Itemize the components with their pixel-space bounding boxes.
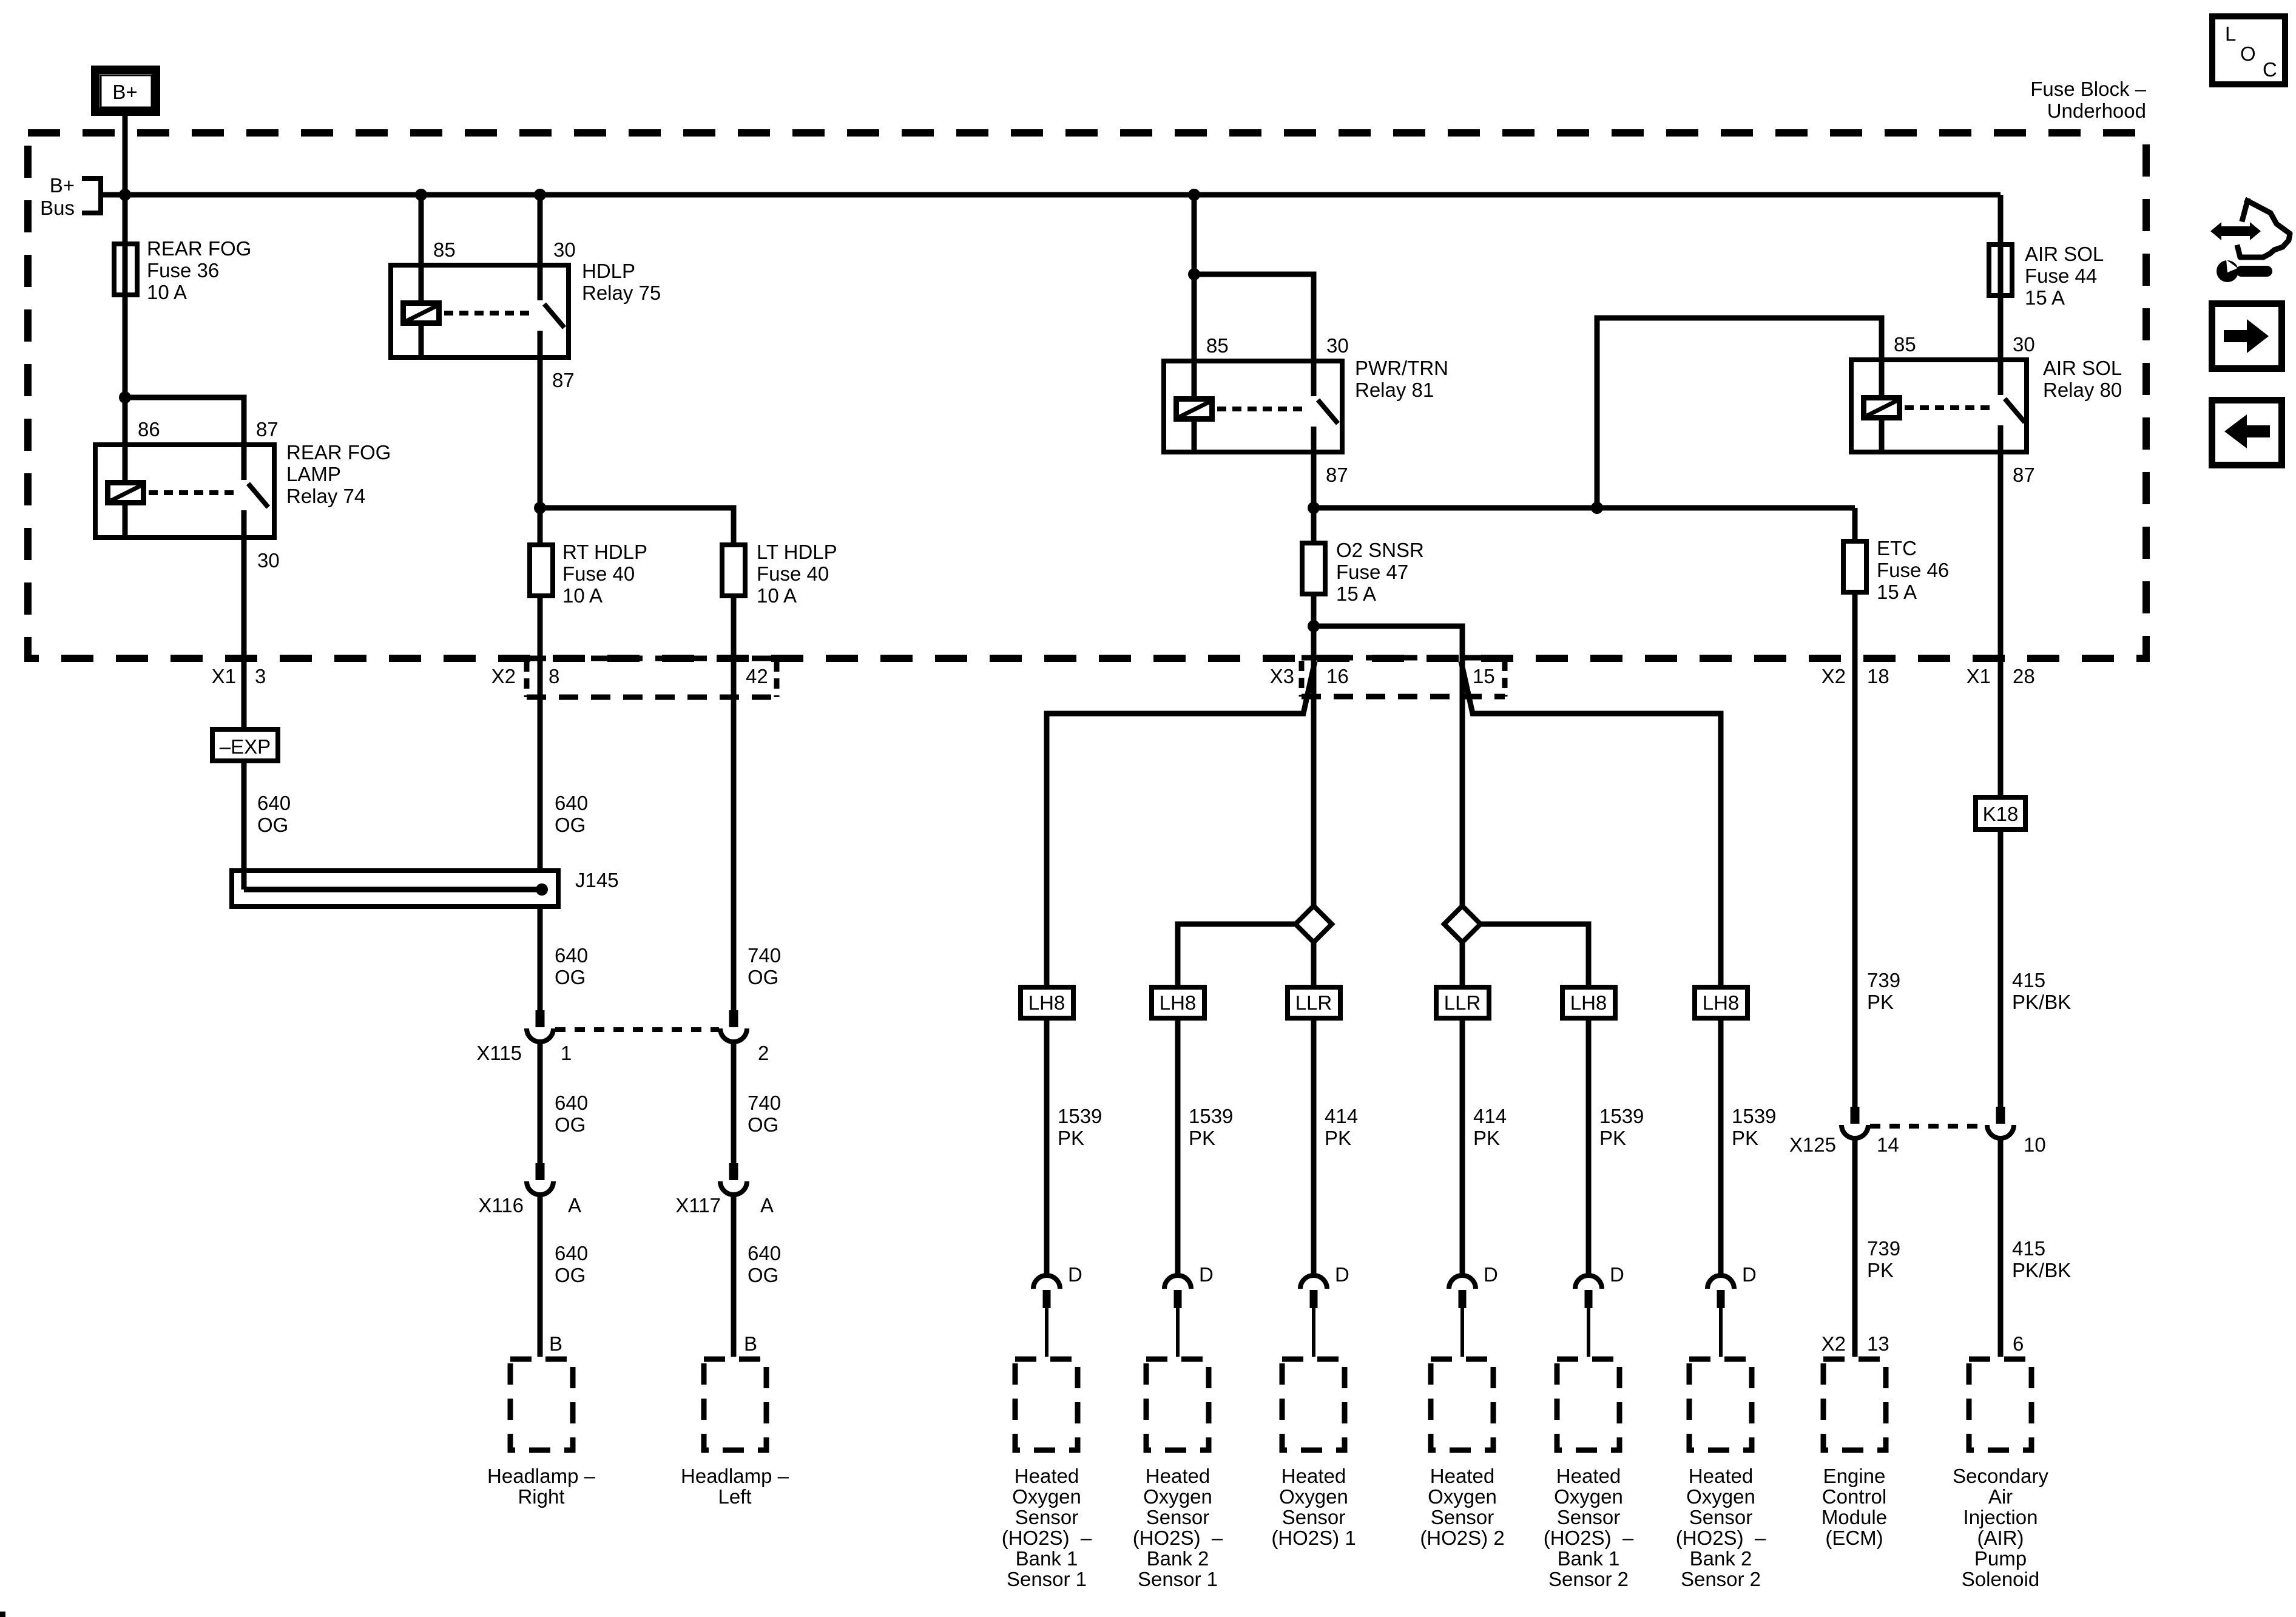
connector X1 pin 28 labels bbox=[1967, 665, 2035, 687]
wire: diamond S1 down to LLR (HO2S 1) bbox=[1311, 942, 1317, 985]
connector X3 dashed outline bbox=[1302, 658, 1505, 697]
relay K74 coil-to-switch dashed link bbox=[149, 490, 238, 495]
svg-text:86: 86 bbox=[138, 418, 160, 441]
svg-text:Fuse 40: Fuse 40 bbox=[562, 562, 635, 585]
wire: branch to right (to ETC fuse and AIR SOL coil riser) bbox=[1314, 505, 1855, 511]
svg-text:Oxygen: Oxygen bbox=[1554, 1485, 1623, 1508]
icon: forward arrow box bbox=[2212, 304, 2282, 369]
svg-text:X1: X1 bbox=[212, 665, 236, 687]
svg-text:(HO2S) 2: (HO2S) 2 bbox=[1420, 1527, 1504, 1549]
svg-text:D: D bbox=[1484, 1263, 1498, 1286]
svg-text:Sensor 2: Sensor 2 bbox=[1681, 1568, 1761, 1590]
svg-text:OG: OG bbox=[748, 966, 778, 988]
svg-text:PK: PK bbox=[1867, 1259, 1894, 1281]
svg-text:1539: 1539 bbox=[1732, 1105, 1776, 1127]
svg-text:1539: 1539 bbox=[1599, 1105, 1644, 1127]
svg-text:30: 30 bbox=[257, 549, 280, 572]
component: Headlamp Left dashed box bbox=[704, 1359, 766, 1450]
svg-text:D: D bbox=[1068, 1263, 1082, 1286]
svg-text:Bank 1: Bank 1 bbox=[1016, 1547, 1078, 1570]
label: circuit 640 OG (above X115) bbox=[555, 944, 588, 988]
wire: branch over to X3-15 bbox=[1314, 626, 1462, 906]
svg-text:B+: B+ bbox=[112, 81, 137, 103]
wire: diamond S2 branch to column 5 bbox=[1481, 924, 1589, 985]
wire: col6 down to sensor bbox=[1718, 1021, 1724, 1277]
svg-text:X117: X117 bbox=[675, 1194, 721, 1217]
svg-text:PK/BK: PK/BK bbox=[2012, 1259, 2071, 1281]
svg-text:13: 13 bbox=[1867, 1332, 1889, 1355]
svg-text:87: 87 bbox=[256, 418, 279, 441]
svg-text:640: 640 bbox=[555, 792, 588, 814]
svg-text:Oxygen: Oxygen bbox=[1686, 1485, 1755, 1508]
wire: X117 to headlamp left bbox=[731, 1194, 737, 1357]
node: bus junction at B+ drop bbox=[119, 189, 131, 201]
fuse F40 LT HDLP bbox=[722, 545, 745, 596]
connector X115 dashed tie bbox=[555, 1027, 719, 1032]
svg-text:L: L bbox=[2225, 22, 2236, 45]
relay K81 switch bbox=[1314, 359, 1338, 454]
svg-text:Heated: Heated bbox=[1556, 1465, 1621, 1487]
inline connector LH8 (col 6) bbox=[1695, 987, 1747, 1018]
svg-text:X1: X1 bbox=[1967, 665, 1991, 687]
connector X125 dashed tie bbox=[1870, 1124, 1985, 1129]
svg-text:–EXP: –EXP bbox=[220, 735, 271, 758]
svg-text:B: B bbox=[744, 1332, 757, 1355]
svg-text:740: 740 bbox=[748, 1092, 781, 1114]
wire: ETC fuse drop from branch bbox=[1852, 508, 1858, 541]
svg-text:Sensor: Sensor bbox=[1557, 1506, 1621, 1528]
svg-text:LH8: LH8 bbox=[1570, 991, 1607, 1014]
wire: X3-15 splice-out slant to right bank feed bbox=[1461, 661, 1721, 985]
wire: X125-14 down to ECM bbox=[1852, 1138, 1858, 1357]
svg-text:LH8: LH8 bbox=[1160, 991, 1197, 1014]
label: relay 75 bbox=[582, 260, 661, 304]
inline connector LLR (col 4) bbox=[1436, 987, 1489, 1018]
svg-text:PK: PK bbox=[1325, 1127, 1351, 1149]
label: relay 74 bbox=[286, 441, 391, 507]
fuse F44 AIR SOL bbox=[1989, 245, 2012, 295]
label: LT fuse 40 bbox=[757, 541, 837, 607]
svg-text:Sensor: Sensor bbox=[1146, 1506, 1210, 1528]
label: Fuse Block - Underhood bbox=[2030, 78, 2146, 122]
svg-text:15 A: 15 A bbox=[1336, 582, 1376, 605]
label: Secondary Air Injection Pump Solenoid bbox=[1953, 1465, 2048, 1590]
svg-text:LH8: LH8 bbox=[1028, 991, 1065, 1014]
wire: RT fuse down through X2-8 to J145 bbox=[538, 596, 543, 868]
wire: riser from junction to AIR SOL relay pin 85 bbox=[1597, 318, 1882, 508]
svg-text:640: 640 bbox=[555, 1092, 588, 1114]
component: ECM dashed box bbox=[1823, 1359, 1886, 1450]
connector X116 labels bbox=[478, 1194, 581, 1217]
label: circuit 1539 PK (col 5) bbox=[1599, 1105, 1644, 1149]
svg-text:PK: PK bbox=[1473, 1127, 1500, 1149]
svg-text:Fuse 36: Fuse 36 bbox=[147, 259, 219, 282]
component: HO2S 2 dashed box bbox=[1431, 1359, 1493, 1450]
wire: diamond S1 branch to column 2 bbox=[1178, 924, 1295, 985]
label: circuit 640 OG (below EXP) bbox=[257, 792, 291, 836]
label: circuit 739 PK (below X125) bbox=[1867, 1237, 1900, 1281]
svg-text:(HO2S) –: (HO2S) – bbox=[1002, 1527, 1092, 1549]
svg-text:REAR FOG: REAR FOG bbox=[286, 441, 391, 464]
splice diamond S2 bbox=[1444, 906, 1481, 942]
svg-text:Sensor: Sensor bbox=[1015, 1506, 1079, 1528]
svg-text:Sensor 1: Sensor 1 bbox=[1138, 1568, 1218, 1590]
svg-text:Fuse 44: Fuse 44 bbox=[2025, 265, 2097, 287]
svg-text:X3: X3 bbox=[1270, 665, 1294, 687]
relay K80 coil bbox=[1864, 357, 1900, 454]
svg-text:Heated: Heated bbox=[1689, 1465, 1753, 1487]
svg-text:85: 85 bbox=[433, 238, 456, 261]
svg-text:640: 640 bbox=[555, 944, 588, 967]
fuse F46 ETC bbox=[1843, 541, 1866, 592]
svg-text:10 A: 10 A bbox=[562, 584, 603, 607]
svg-text:PK: PK bbox=[1732, 1127, 1758, 1149]
svg-text:X125: X125 bbox=[1789, 1133, 1836, 1156]
node: junction to relay 74 bbox=[119, 391, 131, 403]
label: HO2S Bank1 Sensor2 bbox=[1544, 1465, 1634, 1590]
svg-text:739: 739 bbox=[1867, 1237, 1900, 1260]
svg-text:AIR SOL: AIR SOL bbox=[2025, 243, 2104, 265]
connector X115 labels bbox=[476, 1042, 769, 1064]
svg-text:15: 15 bbox=[1473, 665, 1495, 687]
svg-text:414: 414 bbox=[1325, 1105, 1358, 1127]
svg-text:Solenoid: Solenoid bbox=[1962, 1568, 2039, 1590]
relay K80 coil-to-switch dashed link bbox=[1905, 405, 1993, 410]
wire: col5 down to sensor bbox=[1586, 1021, 1592, 1277]
svg-text:HDLP: HDLP bbox=[582, 260, 635, 282]
svg-text:PWR/TRN: PWR/TRN bbox=[1355, 357, 1448, 379]
label: Engine Control Module bbox=[1822, 1465, 1887, 1549]
svg-text:PK: PK bbox=[1058, 1127, 1084, 1149]
label: circuit 1539 PK (col 6) bbox=[1732, 1105, 1776, 1149]
connector terminal D (col 2) bbox=[1164, 1263, 1214, 1357]
connector terminal D (col 4) bbox=[1449, 1263, 1498, 1357]
label: circuit 415 PK/BK (above X125) bbox=[2012, 969, 2071, 1013]
connector terminal D (col 1) bbox=[1033, 1263, 1082, 1357]
inline connector LLR (col 3) bbox=[1288, 987, 1340, 1018]
wire: X116 to headlamp right bbox=[538, 1194, 543, 1357]
connector X2 dashed outline bbox=[527, 658, 777, 697]
svg-text:X2: X2 bbox=[1822, 1332, 1846, 1355]
svg-text:O2 SNSR: O2 SNSR bbox=[1336, 539, 1424, 561]
connector X125 pin 14 terminal bbox=[1842, 1107, 1868, 1138]
svg-text:10 A: 10 A bbox=[757, 584, 797, 607]
svg-text:X116: X116 bbox=[478, 1194, 524, 1217]
svg-text:14: 14 bbox=[1877, 1133, 1899, 1156]
connector X125 pin 10 terminal bbox=[1987, 1107, 2014, 1138]
svg-text:OG: OG bbox=[555, 1113, 586, 1136]
svg-text:Air: Air bbox=[1988, 1485, 2013, 1508]
svg-text:LAMP: LAMP bbox=[286, 463, 341, 485]
svg-text:RT HDLP: RT HDLP bbox=[562, 541, 647, 563]
svg-text:Sensor: Sensor bbox=[1689, 1506, 1753, 1528]
splice J145 box bbox=[232, 871, 558, 906]
svg-text:X2: X2 bbox=[1822, 665, 1846, 687]
svg-text:Relay 81: Relay 81 bbox=[1355, 379, 1434, 401]
label: circuit 1539 PK (col 2) bbox=[1189, 1105, 1233, 1149]
svg-text:LH8: LH8 bbox=[1703, 991, 1740, 1014]
wire: link over to LT HDLP fuse bbox=[540, 508, 734, 542]
relay K81 coil-to-switch dashed link bbox=[1217, 407, 1306, 411]
relay K75 HDLP box bbox=[391, 265, 569, 357]
svg-text:OG: OG bbox=[555, 1264, 586, 1286]
svg-text:A: A bbox=[760, 1194, 774, 1217]
label: fuse 47 bbox=[1336, 539, 1424, 605]
wire: B+ bus bbox=[101, 192, 2001, 198]
label: fuse 46 bbox=[1877, 537, 1949, 603]
svg-text:28: 28 bbox=[2013, 665, 2035, 687]
svg-text:Relay 75: Relay 75 bbox=[582, 282, 661, 304]
component: HO2S Bank1 Sensor2 dashed box bbox=[1557, 1359, 1619, 1450]
svg-text:Oxygen: Oxygen bbox=[1012, 1485, 1081, 1508]
connector X2 pin 18 labels bbox=[1822, 665, 1889, 687]
connector X3 labels bbox=[1270, 665, 1495, 687]
svg-text:Relay 80: Relay 80 bbox=[2043, 379, 2122, 401]
svg-text:640: 640 bbox=[257, 792, 291, 814]
label: Headlamp Left bbox=[681, 1465, 789, 1508]
svg-text:OG: OG bbox=[257, 814, 288, 836]
svg-text:Secondary: Secondary bbox=[1953, 1465, 2048, 1487]
inline connector LH8 (col 1) bbox=[1021, 987, 1073, 1018]
svg-text:Headlamp –: Headlamp – bbox=[681, 1465, 789, 1487]
label: fuse 44 bbox=[2025, 243, 2104, 309]
component -EXP box bbox=[212, 729, 278, 761]
component: Headlamp Right dashed box bbox=[510, 1359, 573, 1450]
component: HO2S Bank2 Sensor1 dashed box bbox=[1146, 1359, 1209, 1450]
svg-text:B: B bbox=[549, 1332, 562, 1355]
wire: relay75 pin87 down to headlamp fuse junction bbox=[538, 360, 543, 542]
svg-text:Underhood: Underhood bbox=[2047, 100, 2146, 122]
wire: relay75 pin 30 from bus bbox=[538, 195, 543, 263]
svg-text:C: C bbox=[2263, 58, 2277, 81]
svg-text:Control: Control bbox=[1822, 1485, 1886, 1508]
connector X115 pin 2 terminal bbox=[720, 1010, 747, 1042]
label: circuit 740 OG (above X115-2) bbox=[748, 944, 781, 988]
svg-text:Heated: Heated bbox=[1015, 1465, 1079, 1487]
relay K81 PWR/TRN box bbox=[1164, 361, 1342, 452]
svg-text:D: D bbox=[1610, 1263, 1624, 1286]
wire: col4 down to sensor bbox=[1460, 1021, 1465, 1277]
connector terminal D (col 6) bbox=[1707, 1263, 1757, 1357]
fuse F47 O2 SNSR bbox=[1302, 543, 1325, 594]
wire: relay75 pin 85 from bus bbox=[419, 195, 424, 263]
svg-text:30: 30 bbox=[2013, 333, 2035, 356]
connector X2 pin labels bbox=[491, 665, 768, 687]
svg-text:Fuse 46: Fuse 46 bbox=[1877, 559, 1949, 581]
svg-text:PK: PK bbox=[1867, 991, 1894, 1013]
svg-text:1: 1 bbox=[561, 1042, 572, 1064]
Fuse Block - Underhood dashed boundary bbox=[28, 133, 2146, 658]
wire: X125-10 down to AIR pump solenoid bbox=[1998, 1138, 2004, 1357]
node: bus junction at PWR/TRN drop bbox=[1188, 189, 1200, 201]
svg-text:10: 10 bbox=[2024, 1133, 2046, 1156]
relay K80 AIR SOL box bbox=[1851, 360, 2027, 452]
svg-text:AIR SOL: AIR SOL bbox=[2043, 357, 2122, 379]
label: HO2S 2 bbox=[1420, 1465, 1504, 1549]
svg-text:42: 42 bbox=[746, 665, 768, 687]
svg-text:414: 414 bbox=[1473, 1105, 1507, 1127]
svg-text:D: D bbox=[1335, 1263, 1349, 1286]
label: Headlamp Right bbox=[487, 1465, 596, 1508]
label: RT fuse 40 bbox=[562, 541, 647, 607]
connector X115 pin 1 terminal bbox=[527, 1010, 553, 1042]
wire: X115-2 to X117 bbox=[731, 1041, 737, 1163]
relay K75 coil-to-switch dashed link bbox=[444, 311, 533, 316]
svg-text:A: A bbox=[568, 1194, 581, 1217]
svg-text:LLR: LLR bbox=[1295, 991, 1332, 1014]
svg-text:PK: PK bbox=[1599, 1127, 1626, 1149]
label: relay 81 bbox=[1355, 357, 1448, 401]
svg-text:739: 739 bbox=[1867, 969, 1900, 991]
svg-text:85: 85 bbox=[1206, 334, 1229, 357]
wire: J145 down to X115-1 bbox=[538, 909, 543, 1010]
node: junction to relay81 pin 30 bbox=[1188, 268, 1200, 280]
svg-text:Module: Module bbox=[1822, 1506, 1887, 1528]
svg-text:15 A: 15 A bbox=[2025, 286, 2065, 309]
svg-text:415: 415 bbox=[2012, 1237, 2045, 1260]
svg-text:Headlamp –: Headlamp – bbox=[487, 1465, 596, 1487]
inline connector LH8 (col 2) bbox=[1152, 987, 1204, 1018]
wire: col3 down to sensor bbox=[1311, 1021, 1317, 1277]
B+ Bus label and bracket bbox=[40, 174, 101, 219]
node: junction below fuse 47 bbox=[1308, 620, 1320, 632]
svg-text:Fuse Block –: Fuse Block – bbox=[2030, 78, 2146, 100]
svg-text:D: D bbox=[1199, 1263, 1214, 1286]
svg-text:15 A: 15 A bbox=[1877, 581, 1917, 603]
svg-text:Oxygen: Oxygen bbox=[1143, 1485, 1212, 1508]
label: circuit 740 OG (below X115) bbox=[748, 1092, 781, 1136]
svg-text:K18: K18 bbox=[1983, 803, 2019, 825]
wire: B+ to bus bbox=[123, 116, 128, 195]
svg-text:10 A: 10 A bbox=[147, 281, 187, 303]
svg-text:Sensor 1: Sensor 1 bbox=[1007, 1568, 1087, 1590]
relay K74 REAR FOG LAMP box bbox=[95, 445, 274, 538]
svg-text:J145: J145 bbox=[575, 869, 619, 891]
svg-text:REAR FOG: REAR FOG bbox=[147, 237, 251, 260]
svg-text:85: 85 bbox=[1894, 333, 1916, 356]
wire: junction over to pin 87 bbox=[125, 397, 244, 442]
wire: diamond S2 down to LLR (HO2S 2) bbox=[1460, 942, 1465, 985]
svg-text:(AIR): (AIR) bbox=[1977, 1527, 2024, 1549]
icon: underhood view (car outline, double arrow, wrench) bbox=[2210, 201, 2290, 282]
svg-text:(HO2S) –: (HO2S) – bbox=[1676, 1527, 1766, 1549]
label: circuit 640 OG (below X116) bbox=[555, 1242, 588, 1286]
svg-text:30: 30 bbox=[1326, 334, 1349, 357]
wire: fuse 47 down to X3-16 bbox=[1311, 594, 1317, 906]
node: J145 splice junction bbox=[536, 883, 548, 896]
svg-text:Bank 2: Bank 2 bbox=[1147, 1547, 1209, 1570]
relay K75 coil bbox=[403, 263, 440, 360]
svg-text:87: 87 bbox=[2013, 464, 2035, 486]
component K18 box bbox=[1976, 797, 2025, 829]
svg-text:Heated: Heated bbox=[1146, 1465, 1210, 1487]
node: bus junction at HDLP relay pin 85 bbox=[415, 189, 427, 201]
svg-text:740: 740 bbox=[748, 944, 781, 967]
relay K81 coil bbox=[1177, 359, 1213, 454]
wire: bus to REAR FOG fuse and down to junction bbox=[123, 195, 128, 397]
svg-text:Heated: Heated bbox=[1281, 1465, 1346, 1487]
svg-text:OG: OG bbox=[555, 966, 586, 988]
label: HO2S 1 bbox=[1271, 1465, 1356, 1549]
svg-text:415: 415 bbox=[2012, 969, 2045, 991]
svg-text:B+: B+ bbox=[50, 174, 75, 197]
B+ power symbol bbox=[95, 70, 156, 112]
svg-text:X2: X2 bbox=[491, 665, 516, 687]
svg-text:PK/BK: PK/BK bbox=[2012, 991, 2071, 1013]
label: circuit 739 PK (above X125) bbox=[1867, 969, 1900, 1013]
svg-text:Right: Right bbox=[518, 1485, 564, 1508]
svg-text:1539: 1539 bbox=[1058, 1105, 1102, 1127]
label: HO2S Bank1 Sensor1 bbox=[1002, 1465, 1092, 1590]
fuse F40 RT HDLP bbox=[530, 545, 553, 596]
connector terminal D (col 5) bbox=[1575, 1263, 1624, 1357]
label: relay 80 bbox=[2043, 357, 2122, 401]
component: AIR pump solenoid dashed box bbox=[1969, 1359, 2031, 1450]
svg-text:2: 2 bbox=[758, 1042, 769, 1064]
LOC reference box bbox=[2212, 16, 2285, 84]
wire: LT fuse down through X2-42 to X115-2 bbox=[731, 596, 737, 1010]
label: circuit 1539 PK (col 1) bbox=[1058, 1105, 1102, 1149]
component: HO2S 1 dashed box bbox=[1282, 1359, 1345, 1450]
relay K75 switch bbox=[540, 263, 564, 360]
svg-text:(ECM): (ECM) bbox=[1825, 1527, 1883, 1549]
svg-text:8: 8 bbox=[549, 665, 559, 687]
splice diamond S1 bbox=[1295, 906, 1332, 942]
svg-text:30: 30 bbox=[553, 238, 576, 261]
wire: bus corner down to AIR SOL fuse 44 bbox=[1998, 195, 2004, 357]
node: junction AIR SOL coil riser bbox=[1591, 502, 1603, 514]
svg-text:6: 6 bbox=[2013, 1332, 2024, 1355]
svg-text:LT HDLP: LT HDLP bbox=[757, 541, 837, 563]
connector X1 pin 3 labels bbox=[212, 665, 266, 687]
svg-text:X115: X115 bbox=[476, 1042, 522, 1064]
svg-text:D: D bbox=[1742, 1263, 1757, 1286]
relay K74 coil bbox=[108, 442, 144, 540]
node: bus junction at HDLP relay pin 30 bbox=[534, 189, 546, 201]
svg-text:16: 16 bbox=[1326, 665, 1349, 687]
wire: relay81 pin87 down to O2 fuse bbox=[1311, 454, 1317, 543]
wire: col1 down to sensor bbox=[1044, 1021, 1050, 1277]
svg-text:Sensor: Sensor bbox=[1431, 1506, 1494, 1528]
wire: K18 down to X125-10 bbox=[1998, 832, 2004, 1107]
wire: ETC fuse down through X2-18 to X125-14 bbox=[1852, 592, 1858, 1107]
svg-text:Engine: Engine bbox=[1823, 1465, 1886, 1487]
svg-text:Bank 1: Bank 1 bbox=[1558, 1547, 1620, 1570]
connector X117 terminal bbox=[720, 1163, 747, 1195]
svg-text:640: 640 bbox=[555, 1242, 588, 1264]
svg-text:Fuse 40: Fuse 40 bbox=[757, 562, 829, 585]
fuse F36 REAR FOG bbox=[114, 244, 137, 295]
relay K80 switch bbox=[2001, 357, 2025, 454]
node: junction RT/LT headlamp feed bbox=[534, 502, 546, 514]
svg-text:Fuse 47: Fuse 47 bbox=[1336, 561, 1408, 583]
svg-text:Pump: Pump bbox=[1974, 1547, 2027, 1570]
svg-text:OG: OG bbox=[748, 1113, 778, 1136]
inline connector LH8 (col 5) bbox=[1562, 987, 1615, 1018]
label: circuit 414 PK (col 3) bbox=[1325, 1105, 1358, 1149]
component: HO2S Bank2 Sensor2 dashed box bbox=[1689, 1359, 1752, 1450]
connector X116 terminal bbox=[527, 1163, 553, 1195]
svg-text:Left: Left bbox=[718, 1485, 751, 1508]
wire: relay80 pin87 down through X1-28 to K18 bbox=[1998, 454, 2004, 795]
wire: junction to pin 86 bbox=[123, 397, 128, 442]
svg-text:PK: PK bbox=[1189, 1127, 1215, 1149]
svg-text:1539: 1539 bbox=[1189, 1105, 1233, 1127]
svg-text:Oxygen: Oxygen bbox=[1428, 1485, 1497, 1508]
svg-text:3: 3 bbox=[255, 665, 266, 687]
connector terminal D (col 3) bbox=[1300, 1263, 1349, 1357]
label: circuit 640 OG (below X115) bbox=[555, 1092, 588, 1136]
